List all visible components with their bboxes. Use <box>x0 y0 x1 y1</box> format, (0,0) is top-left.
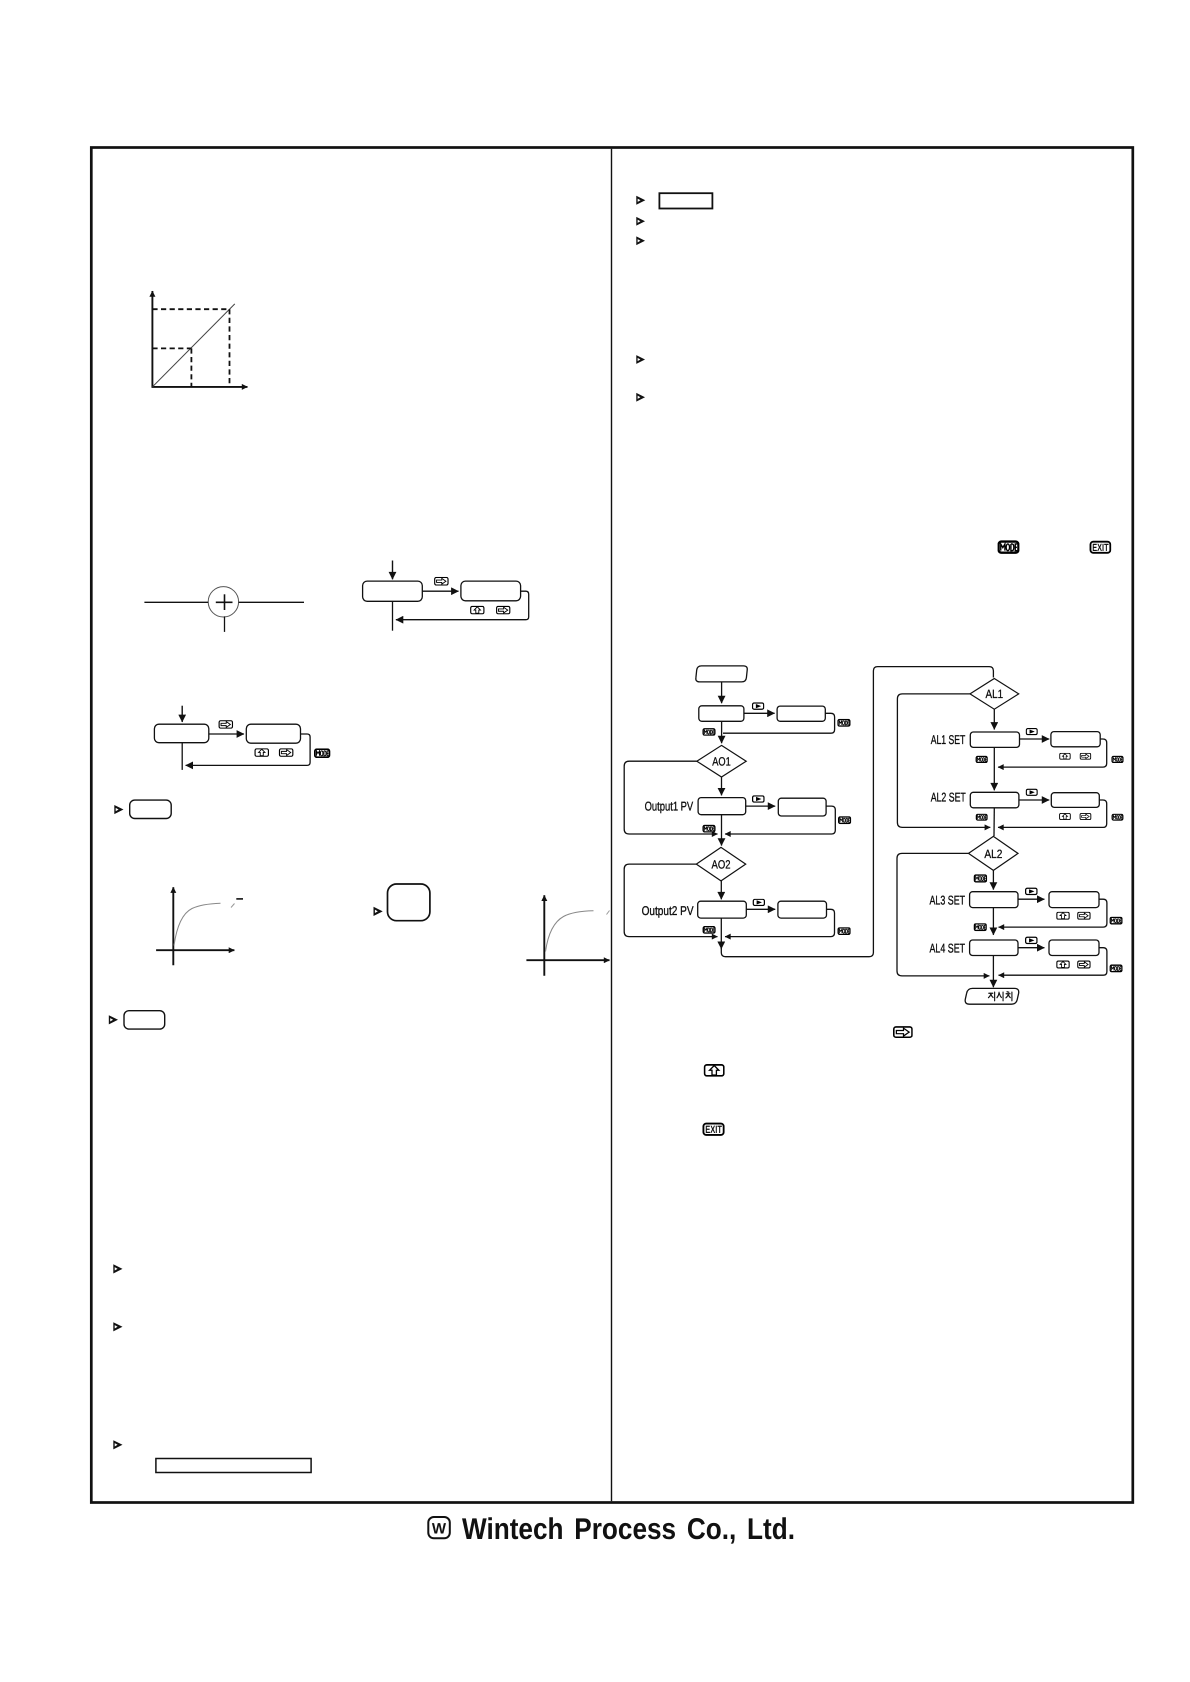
wire AL1SET down to AL2SET <box>993 747 995 790</box>
FB box 1 <box>154 724 208 743</box>
box2 display <box>699 706 744 722</box>
G2 asymptote dash <box>236 898 243 900</box>
bullet arrow 3 <box>109 1015 118 1024</box>
FA entry arrow <box>392 561 394 580</box>
MODE label below AL2 <box>974 875 986 882</box>
standalone key up <box>705 1065 724 1076</box>
AL1 MODE right <box>1112 756 1123 762</box>
AL1 key up <box>1060 753 1070 759</box>
FB feedback loop wire <box>186 734 311 765</box>
box5 display <box>778 798 826 816</box>
standalone EXIT key (right) <box>1090 542 1110 554</box>
AL1 key next <box>1026 729 1037 735</box>
FB key right 2 <box>279 749 292 757</box>
key next 3 <box>753 899 764 905</box>
G3 curve end tick <box>607 911 610 915</box>
thin rectangle field <box>156 1459 311 1473</box>
arrow AO2 to box6 <box>720 881 722 899</box>
wire box2 down to AO1 <box>721 721 723 743</box>
G2 curve end tick <box>231 904 235 908</box>
svg-text:Output1 PV: Output1 PV <box>645 800 694 814</box>
G2 y-axis <box>172 887 174 965</box>
G3 y-axis <box>543 895 545 975</box>
AL2 key up <box>1060 813 1071 819</box>
label 지시치 (Korean) <box>988 992 1011 1001</box>
arrow AL3SET to value box <box>1018 898 1044 900</box>
main flowchart: start terminator <box>696 666 747 682</box>
terminator 지시치 <box>965 988 1019 1004</box>
AL1 key right <box>1080 753 1090 759</box>
box4 display <box>698 798 746 815</box>
right column bullet 2 <box>636 217 645 226</box>
bullet item with rounded square <box>374 884 430 921</box>
summing circle <box>208 587 238 617</box>
MODE label right 3 <box>838 928 850 935</box>
FB arrow box1 to box2 <box>209 733 244 735</box>
FA key right 2 <box>497 606 510 613</box>
AL3 key up <box>1057 912 1069 919</box>
AO1 loop rectangle wire <box>624 761 717 834</box>
box6 display <box>698 901 747 918</box>
AL3 MODE left <box>974 924 986 931</box>
feedback loop box7 <box>725 909 835 936</box>
FA box 2 <box>461 581 521 601</box>
AL4 value box <box>1049 940 1099 956</box>
arrow AL3SET down to AL4SET <box>992 908 994 935</box>
bullet item with small box (lower) <box>109 1011 165 1029</box>
box7 display <box>778 901 827 918</box>
AL3 feedback loop <box>999 899 1107 927</box>
bullet arrow 5 <box>113 1322 122 1331</box>
arrow box6 to box7 <box>746 908 775 910</box>
AL1 loop rectangle wire <box>897 694 990 828</box>
MODE label left 3 <box>703 927 715 934</box>
svg-text:AL2 SET: AL2 SET <box>931 791 966 805</box>
arrow AL2 to AL3SET <box>992 870 994 889</box>
standalone key right-arrow <box>894 1027 912 1037</box>
rounded square box <box>388 884 430 921</box>
AL2 MODE left <box>976 814 987 820</box>
arrow AO1 to box4 <box>721 777 723 795</box>
mini flowchart B (lower with MODE) <box>154 706 329 770</box>
AL1 feedback loop <box>998 739 1107 767</box>
AL3SET box <box>970 892 1018 908</box>
MODE label right 2 <box>839 817 851 824</box>
svg-text:AL3 SET: AL3 SET <box>930 894 966 908</box>
AL4 feedback loop <box>999 948 1107 976</box>
AL1SET box <box>970 732 1019 747</box>
FA feedback loop wire <box>396 591 529 620</box>
FB wire below box1 <box>181 743 183 770</box>
G1 dashed vertical right <box>229 309 231 387</box>
bullet arrow 2 <box>374 907 383 916</box>
key next 1 <box>753 703 764 709</box>
G1 diagonal line <box>153 304 235 387</box>
AL4 key next <box>1026 937 1037 943</box>
MODE label right 1 <box>838 719 850 726</box>
G1 dashed horizontal lower <box>152 347 191 349</box>
G1 x-axis <box>152 386 248 388</box>
FB key right-arrow <box>219 721 232 729</box>
G3 x-axis <box>526 959 609 961</box>
FA key right-arrow <box>435 577 448 585</box>
AL4 MODE right <box>1110 965 1122 972</box>
svg-text:Wintech Process Co., Ltd.: Wintech Process Co., Ltd. <box>462 1513 795 1546</box>
FB key up <box>255 749 268 757</box>
AL2 key next <box>1026 789 1037 795</box>
footer W logo <box>428 1517 450 1538</box>
wire left of circle <box>144 601 208 603</box>
AL2 MODE right <box>1112 814 1123 820</box>
wire box6 down through junction <box>720 918 722 949</box>
right column bullet 5 <box>636 393 645 402</box>
svg-text:AO2: AO2 <box>712 858 731 872</box>
svg-text:AL1: AL1 <box>986 687 1004 701</box>
arrow box2 to box3 <box>744 712 775 714</box>
arrow AL2SET to value box <box>1019 799 1049 801</box>
AO2 loop rectangle wire <box>624 864 717 937</box>
wire below circle <box>224 616 226 632</box>
svg-text:AO1: AO1 <box>712 755 731 769</box>
wire right of circle <box>239 601 304 603</box>
FA wire below box1 <box>392 601 394 630</box>
MODE label left 2 <box>703 825 715 832</box>
diamond AO1 <box>697 745 746 777</box>
mini flowchart A (upper) <box>363 561 529 631</box>
AL2 value box <box>1051 793 1099 808</box>
FA key up <box>471 606 484 613</box>
wire AL4SET down to terminator <box>992 956 994 988</box>
right column bullet 4 <box>636 355 645 364</box>
AL2 key right <box>1080 813 1091 819</box>
AL2SET box <box>970 792 1019 808</box>
small rounded box 2 <box>124 1011 165 1029</box>
arrow start to box2 <box>721 682 723 703</box>
AL3 key next <box>1026 888 1037 894</box>
G1 dashed horizontal upper <box>152 308 229 310</box>
svg-text:AL2: AL2 <box>984 847 1002 861</box>
G3 curve <box>546 911 594 952</box>
FB MODE key <box>315 749 330 757</box>
graph G1 linear scaling graph <box>152 291 248 387</box>
bullet item with small box (upper) <box>114 800 171 818</box>
svg-text:AL4 SET: AL4 SET <box>930 941 966 955</box>
FB box 2 <box>246 724 300 743</box>
AL1 MODE left <box>976 756 987 762</box>
AL4SET box <box>970 940 1018 956</box>
plus sign vertical <box>224 594 226 610</box>
MODE label left 1 <box>703 729 715 736</box>
diamond AL1 <box>970 679 1019 710</box>
AL3 MODE right <box>1110 917 1122 924</box>
wire AL2SET down to diamond AL2 <box>993 808 995 836</box>
AL4 key right <box>1078 961 1090 968</box>
svg-text:Output2 PV: Output2 PV <box>642 904 694 918</box>
column divider line <box>611 149 613 1501</box>
feedback loop box3 <box>723 713 835 733</box>
summing junction circle diagram <box>144 587 304 632</box>
right column value box <box>659 193 712 208</box>
graph G3 exponential curve <box>526 895 609 975</box>
G1 dashed vertical mid <box>190 348 192 387</box>
AL4 key up <box>1057 961 1069 968</box>
standalone EXIT key <box>703 1124 723 1137</box>
wire box4 down to AO2 <box>721 815 723 846</box>
FA box 1 <box>363 581 423 601</box>
right column bullet 1 <box>636 196 645 205</box>
AL2 loop rectangle wire <box>897 853 989 976</box>
diamond AL2 <box>969 836 1019 870</box>
bullet arrow 6 <box>113 1440 122 1449</box>
page frame border <box>91 148 1133 1503</box>
feedback loop box5 <box>725 806 835 834</box>
AL2 feedback loop <box>998 800 1107 827</box>
AL3 key right <box>1078 912 1090 919</box>
svg-text:AL1 SET: AL1 SET <box>931 733 966 747</box>
arrow AL1 to AL1SET box <box>993 709 995 729</box>
G2 curve <box>174 903 221 945</box>
connector wire to AL column <box>721 667 993 957</box>
G2 x-axis <box>156 949 234 951</box>
standalone MODE key <box>999 542 1019 553</box>
small rounded box 1 <box>130 800 172 818</box>
arrow box4 to box5 <box>746 805 776 807</box>
arrow AL4SET to value box <box>1018 947 1044 949</box>
FA arrow box1 to box2 <box>422 590 458 592</box>
bullet arrow 4 <box>113 1264 122 1273</box>
G1 y-axis <box>151 291 153 387</box>
plus sign horizontal <box>216 601 233 603</box>
key next 2 <box>753 796 764 802</box>
right column bullet 3 <box>636 236 645 245</box>
graph G2 exponential curve <box>156 887 243 965</box>
box3 display <box>777 706 825 721</box>
svg-text:W: W <box>432 1521 447 1538</box>
AL1 value box <box>1051 732 1100 747</box>
bullet arrow 1 <box>114 805 123 814</box>
AL3 value box <box>1049 892 1099 908</box>
diamond AO2 <box>696 847 745 881</box>
FB entry arrow <box>181 706 183 722</box>
arrow AL1SET to value box <box>1020 738 1050 740</box>
